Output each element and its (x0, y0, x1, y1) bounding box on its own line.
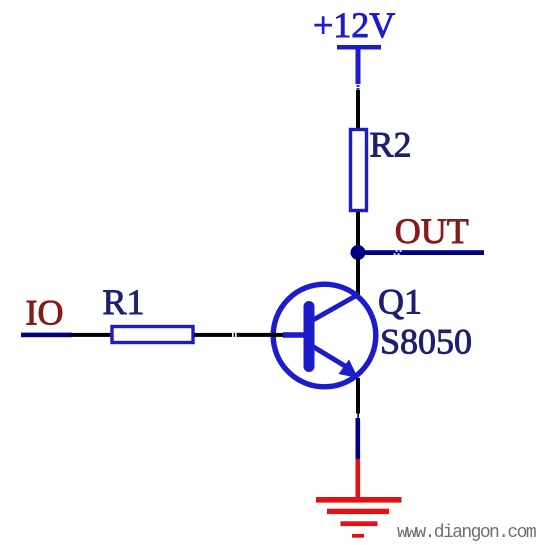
svg-text:OUT: OUT (395, 211, 469, 251)
wire power rail to R2 (356, 90, 360, 128)
svg-text:R1: R1 (103, 282, 145, 322)
wire R1 to Q1 base (194, 333, 283, 337)
wire R2 to OUT node (356, 212, 360, 254)
svg-text:Q1: Q1 (378, 282, 422, 322)
wire IO to R1 (71, 333, 111, 337)
svg-text:R2: R2 (370, 125, 412, 165)
power symbol +12V rail (337, 45, 381, 90)
resistor R2 (351, 130, 367, 211)
node OUT junction (351, 245, 366, 260)
resistor R1 (112, 327, 193, 343)
wire OUT horizontal (364, 250, 484, 255)
svg-text:www.diangon.com: www.diangon.com (397, 523, 536, 543)
svg-text:S8050: S8050 (380, 322, 472, 362)
svg-text:IO: IO (26, 293, 64, 333)
wire emitter down (356, 378, 360, 418)
svg-text:+12V: +12V (313, 5, 395, 45)
transistor Q1 (273, 284, 376, 387)
wire ground lead red (356, 459, 361, 498)
wire IO stub (21, 333, 72, 338)
ground (316, 497, 402, 538)
wire emitter navy segment (356, 418, 361, 459)
wire collector vertical (356, 258, 360, 295)
